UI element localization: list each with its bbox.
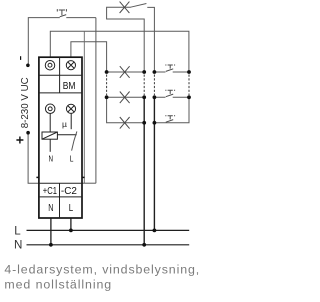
wire: coil feed from terminal N (49, 114, 51, 132)
button rung 3 with right rail drop (154, 97, 189, 123)
push button S3 (165, 116, 175, 122)
svg-text:BM: BM (63, 81, 76, 92)
lamp E3 (120, 117, 130, 129)
wire: vertical drop from line A to device side stub (83, 31, 85, 183)
node dots lamp rung 2 (105, 95, 109, 99)
wire: plus supply riser down to C-row line (28, 133, 39, 184)
stub: device right mounting nub (82, 176, 85, 178)
wire: contact stub from terminal L (70, 114, 72, 130)
device internal row borders (39, 75, 82, 197)
minus supply mark (20, 56, 22, 60)
node dot device L lead on L bus (69, 229, 73, 233)
lamp E1 (120, 66, 130, 78)
svg-text:4-ledarsystem, vindsbelysning,: 4-ledarsystem, vindsbelysning, (4, 262, 199, 276)
relay contact blade (72, 131, 77, 150)
button rung 2 (154, 96, 189, 98)
node: minus supply dot (26, 64, 30, 68)
node dot device N lead on N bus (49, 243, 53, 247)
node dots lamp rung 1 (105, 70, 109, 74)
terminal +A1 (double circle, row 1 left) (45, 60, 55, 70)
svg-text:+C1: +C1 (43, 186, 58, 197)
device internal column divider (59, 57, 61, 218)
lamp E0 (top, X on wire) (120, 2, 130, 13)
wire: lamp return rail to N bus (thick) (143, 97, 145, 245)
node dot lamp rail on N bus (142, 243, 146, 247)
node: plus supply dot (26, 131, 30, 135)
wire: line A from device terminal +A1 up and right to button rail (50, 31, 189, 72)
node dots button rung 1 (153, 70, 157, 74)
stub: device left mounting nub (36, 176, 39, 178)
push button S1 (165, 65, 175, 71)
lamp E2 (120, 92, 130, 104)
wire: coil bottom to N label (49, 139, 51, 152)
wire: line B from device lamp output up and right to lamp rail (71, 42, 107, 72)
dashed rail: button left (153, 75, 155, 96)
wire: long vertical from reset button down to C-row line (95, 18, 97, 184)
lamp rung 1 (107, 71, 145, 73)
node dot button rung 3 (153, 121, 157, 125)
svg-text:med nollställning: med nollställning (4, 277, 111, 291)
wire: C-row line extension right of device (82, 182, 96, 184)
svg-text:8-230 V UC: 8-230 V UC (20, 77, 31, 128)
wire: top lamp branch with corner loop (107, 7, 145, 72)
svg-text:µ: µ (62, 119, 67, 129)
wire: device L lead to L bus (70, 218, 72, 230)
node dot lamp rung 3 (142, 121, 146, 125)
svg-text:L: L (70, 153, 74, 163)
button rung 1 (154, 71, 189, 73)
terminal L (circle-X, row 3 right) (66, 104, 75, 113)
svg-text:N: N (48, 153, 53, 163)
node dot button rail on L bus (153, 229, 157, 233)
wire: device N lead to N bus (50, 218, 52, 245)
svg-text:N: N (14, 238, 22, 251)
wire: button feed rail to L bus (thick) (153, 97, 155, 230)
terminal lamp output (circle-X, row 1 right) (66, 61, 75, 70)
svg-text:N: N (48, 203, 53, 214)
switch S4 (top right, open blade) (131, 4, 155, 73)
wire: minus supply riser and top horizontal to reset button (28, 18, 96, 66)
svg-text:-C2: -C2 (61, 186, 77, 197)
terminal N (double circle, row 3 left) (45, 104, 55, 114)
N bus (27, 244, 190, 246)
dashed rail: lamp right (143, 75, 145, 96)
lamp rung 3 with left rail drop (107, 97, 145, 123)
node dots button rung 2 (153, 95, 157, 99)
svg-text:L: L (69, 203, 74, 214)
dashed rail: button right (188, 75, 190, 96)
dashed rail: lamp left (106, 75, 108, 96)
device U1 body (staircase timer) (39, 57, 82, 218)
mechanical link coil to contact (57, 134, 76, 136)
plus supply mark (16, 137, 23, 144)
svg-text:L: L (14, 224, 21, 237)
lamp rung 2 (107, 96, 145, 98)
relay coil K1 (42, 132, 57, 139)
push button S0 (reset, top left) (57, 9, 66, 17)
L bus (27, 229, 190, 231)
push button S2 (165, 90, 175, 96)
